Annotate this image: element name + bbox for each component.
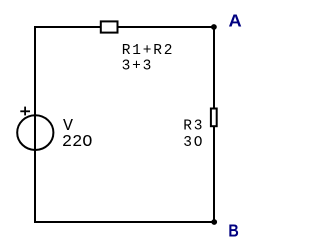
voltage source V circle [17, 115, 53, 150]
node B dot [211, 219, 217, 225]
svg-text:B: B [228, 220, 238, 240]
svg-text:R3: R3 [183, 118, 204, 134]
svg-text:22O: 22O [62, 133, 93, 152]
wire top horizontal [34, 26, 214, 28]
svg-text:3O: 3O [183, 135, 204, 151]
svg-text:3+3: 3+3 [122, 59, 154, 75]
wire left vertical [34, 27, 36, 222]
resistor R3 body [211, 109, 217, 127]
wire bottom horizontal [34, 221, 215, 223]
svg-text:R1+R2: R1+R2 [122, 43, 175, 59]
resistor R1+R2 body [101, 21, 118, 32]
svg-text:A: A [229, 11, 243, 31]
voltage source plus sign [20, 110, 30, 112]
wire right vertical [213, 27, 215, 222]
node A dot [211, 24, 217, 30]
